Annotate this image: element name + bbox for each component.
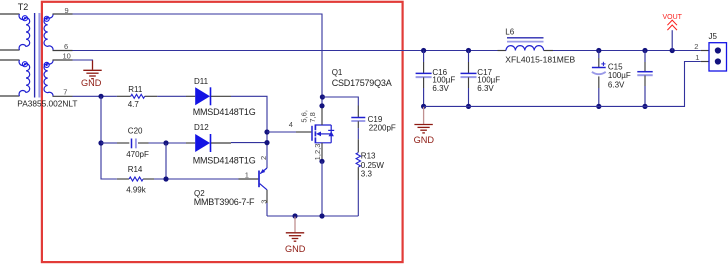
node gnd2 xyxy=(292,213,297,218)
capacitor C19 xyxy=(351,106,365,129)
node source wire end xyxy=(319,159,324,164)
svg-text:D11: D11 xyxy=(194,77,209,86)
node gate branch xyxy=(264,129,269,134)
resistor R13 xyxy=(356,139,360,180)
svg-text:4.99k: 4.99k xyxy=(126,185,147,194)
wire output ground rail xyxy=(424,62,701,107)
node C16 bottom xyxy=(421,104,426,109)
node source rail xyxy=(319,213,324,218)
ground GND1 (pin10) xyxy=(92,61,94,70)
capacitor C17 xyxy=(461,51,477,107)
node C16 top xyxy=(421,48,426,53)
capacitor C16 xyxy=(416,51,432,107)
svg-text:PA3855.002NLT: PA3855.002NLT xyxy=(17,98,77,108)
node output cap bottom xyxy=(642,104,647,109)
resistor R14 xyxy=(117,177,154,181)
wire Q2 collector down xyxy=(266,203,268,216)
svg-text:7,8: 7,8 xyxy=(308,112,317,122)
svg-text:6.3V: 6.3V xyxy=(477,84,494,93)
svg-text:XFL4015-181MEB: XFL4015-181MEB xyxy=(505,54,575,64)
svg-text:L6: L6 xyxy=(505,27,514,36)
diode D11 xyxy=(186,87,231,105)
inductor L6 xyxy=(498,38,554,51)
wire source bottom rail xyxy=(267,215,358,217)
svg-text:6.3V: 6.3V xyxy=(432,84,449,93)
svg-text:MMSD4148T1G: MMSD4148T1G xyxy=(193,107,256,117)
svg-text:CSD17579Q3A: CSD17579Q3A xyxy=(332,78,392,88)
pin stub Q1 source xyxy=(321,143,323,162)
wire pin9 top run xyxy=(73,14,323,106)
svg-text:4.7: 4.7 xyxy=(128,100,140,109)
svg-text:5,6,: 5,6, xyxy=(299,110,308,123)
wire left vertical branch xyxy=(101,96,117,179)
svg-text:Q1: Q1 xyxy=(332,68,343,77)
svg-text:7: 7 xyxy=(63,87,67,96)
svg-text:J5: J5 xyxy=(709,32,718,41)
wire pin6 output rail left xyxy=(73,50,498,52)
node output cap top xyxy=(642,48,647,53)
transistor Q2 xyxy=(239,168,268,203)
wire D11 to emitter node xyxy=(231,96,267,168)
wire to C20 xyxy=(101,142,117,144)
red selection box xyxy=(42,2,403,262)
wire gate run xyxy=(267,131,296,133)
node C15 bottom xyxy=(596,104,601,109)
wire C19 to R13 xyxy=(357,128,359,139)
wire pin6 output rail right of L6 xyxy=(553,50,701,52)
wire pin10 to ground xyxy=(73,60,93,61)
ground GND2 (Q1 source) xyxy=(294,217,296,233)
svg-text:VOUT: VOUT xyxy=(662,14,682,21)
node D12 emitter xyxy=(264,140,269,145)
svg-text:9: 9 xyxy=(65,6,69,15)
wire vertical C20-R14 xyxy=(165,143,167,179)
node C17 top xyxy=(466,48,471,53)
node C15 top xyxy=(596,48,601,53)
svg-text:2200pF: 2200pF xyxy=(369,124,396,133)
svg-text:C20: C20 xyxy=(128,126,143,135)
mosfet Q1 xyxy=(296,124,334,143)
wire R13 down xyxy=(357,180,359,216)
node drain wire end xyxy=(319,103,324,108)
svg-text:2: 2 xyxy=(259,156,268,160)
pin stub Q1 drain xyxy=(321,106,323,125)
transformer T2 xyxy=(0,13,73,98)
diode D12 xyxy=(186,134,231,152)
wire pin7 to R11 xyxy=(73,95,117,97)
svg-text:100µF: 100µF xyxy=(608,71,631,80)
wire drain to C19 xyxy=(322,97,358,106)
svg-text:T2: T2 xyxy=(18,2,29,12)
node pin7 branch xyxy=(98,94,103,99)
wire R11 to D11 xyxy=(157,95,186,97)
svg-text:GND: GND xyxy=(414,135,435,145)
capacitor C15 xyxy=(592,51,606,107)
svg-text:6.3V: 6.3V xyxy=(608,80,625,89)
svg-text:6: 6 xyxy=(64,42,68,51)
svg-text:R14: R14 xyxy=(128,165,143,174)
svg-text:D12: D12 xyxy=(194,123,209,132)
wire C20 to D12 xyxy=(149,142,187,144)
ground GND3 (output) xyxy=(423,107,425,124)
connector J5 xyxy=(701,43,727,71)
svg-text:1: 1 xyxy=(695,53,699,62)
resistor R11 xyxy=(117,94,157,98)
svg-text:MMSD4148T1G: MMSD4148T1G xyxy=(193,155,256,165)
svg-text:R11: R11 xyxy=(128,85,143,94)
svg-text:2: 2 xyxy=(694,42,698,51)
node R14 junction xyxy=(163,176,168,181)
wire D12 to emitter node xyxy=(231,142,267,144)
svg-text:GND: GND xyxy=(285,244,306,254)
wire Q1 source down xyxy=(321,161,323,216)
power port VOUT xyxy=(667,20,677,50)
node D12 branch xyxy=(163,140,168,145)
node C20 left xyxy=(98,140,103,145)
svg-text:1,2,3: 1,2,3 xyxy=(313,144,322,161)
svg-text:1: 1 xyxy=(245,170,249,179)
node VOUT branch xyxy=(670,48,675,53)
svg-text:R13: R13 xyxy=(361,151,376,160)
svg-text:10: 10 xyxy=(63,52,71,61)
node C17 bottom xyxy=(466,104,471,109)
svg-text:470pF: 470pF xyxy=(126,150,149,159)
svg-text:3.3: 3.3 xyxy=(361,170,373,179)
svg-text:GND: GND xyxy=(81,78,102,88)
node drain C19 branch xyxy=(320,94,325,99)
capacitor (unlabeled output) xyxy=(637,51,652,107)
wire R14 to Q2 base xyxy=(154,178,239,180)
svg-text:MMBT3906-7-F: MMBT3906-7-F xyxy=(194,197,255,207)
svg-text:4: 4 xyxy=(289,120,293,129)
capacitor C20 xyxy=(117,139,149,149)
